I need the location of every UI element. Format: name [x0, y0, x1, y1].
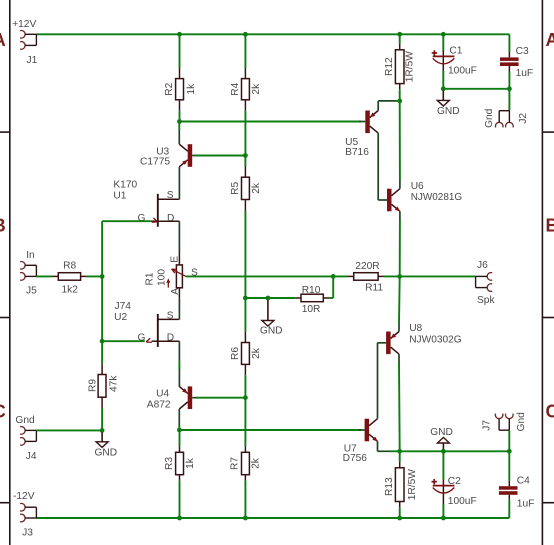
value 1k of R3 [185, 457, 196, 469]
svg-text:J2: J2 [518, 113, 529, 124]
svg-text:1uF: 1uF [516, 68, 534, 79]
transistor U2 [152, 307, 180, 354]
svg-text:Gnd: Gnd [15, 415, 35, 426]
svg-text:U4: U4 [156, 388, 169, 399]
svg-text:100: 100 [157, 269, 168, 286]
label U5 [345, 137, 358, 148]
label GND at J4 [95, 448, 118, 459]
node output junction [397, 274, 402, 279]
label GND below C1 [437, 106, 460, 117]
svg-text:2k: 2k [251, 457, 262, 469]
svg-text:Spk: Spk [477, 295, 495, 306]
value 1k2 of R8 [62, 285, 79, 296]
resistor R7 [242, 446, 250, 480]
frame right border line [541, 0, 543, 545]
wire C2 node to C4 [443, 450, 509, 452]
wire +12V rail [36, 33, 509, 35]
svg-text:D756: D756 [343, 453, 368, 464]
label R12 [384, 57, 395, 76]
svg-text:GND: GND [95, 448, 118, 459]
emitter arrow U8 [391, 333, 397, 338]
wire R4 to U3 base node [244, 111, 246, 156]
pin label D of U2 [167, 332, 174, 343]
node U4 base/R6/R7 junction [243, 395, 248, 400]
wire U4 collector to U7 base [179, 429, 361, 431]
pin label S of U2 [167, 310, 174, 321]
value 2k of R7 [251, 457, 262, 469]
svg-text:+12V: +12V [12, 19, 36, 30]
transistor U6 [387, 189, 400, 212]
svg-text:47k: 47k [108, 375, 119, 392]
resistor R11 [348, 273, 384, 281]
wire U4 base to R6/R7 node [196, 397, 245, 399]
wire R5 to GND node [244, 211, 246, 299]
label GND above C2 [430, 427, 453, 438]
wire U2 gate to input node [102, 340, 145, 342]
wire U8 base jog [377, 342, 386, 344]
svg-text:B: B [0, 215, 6, 235]
svg-text:R10: R10 [302, 285, 321, 296]
svg-text:C: C [546, 402, 554, 422]
svg-text:U6: U6 [411, 181, 424, 192]
svg-text:E: E [169, 256, 180, 263]
frame row tick right A/B [542, 131, 554, 133]
value 100 of R1 [157, 269, 168, 286]
frame row letter A left [0, 30, 6, 50]
node J4/R9 ground junction [100, 428, 105, 433]
value B716 of U5 [345, 147, 369, 158]
wire U2 drain to U4 emitter [178, 354, 180, 387]
label R6 [230, 347, 241, 360]
wiper arrow R1 [172, 269, 186, 276]
value 2k of R4 [251, 83, 262, 95]
connector J3 [20, 503, 36, 521]
svg-text:J3: J3 [22, 527, 33, 538]
svg-text:Gnd: Gnd [516, 412, 527, 432]
resistor R9 [98, 364, 106, 408]
value 2k of R5 [251, 182, 262, 194]
wire R1 wiper to output line [186, 275, 348, 277]
resistor R2 [176, 68, 184, 111]
node C4/J7 junction [507, 449, 512, 454]
wire R2 to node X [179, 111, 181, 122]
svg-text:S: S [167, 310, 174, 321]
plus sign C1 [432, 50, 437, 55]
label J3 [22, 527, 33, 538]
resistor R6 [242, 332, 250, 375]
value NJW0281G of U6 [411, 192, 463, 203]
node -12V/R13 junction [397, 516, 402, 521]
wire R1 to U2 source [178, 299, 180, 307]
wire U3 emitter to U1 source [178, 167, 180, 186]
net label Spk [477, 295, 495, 306]
wire U1 gate to input node [102, 221, 151, 276]
svg-text:GND: GND [430, 427, 453, 438]
wire R8 to input node [86, 275, 102, 277]
label J5 [26, 286, 37, 297]
value 10R of R10 [302, 304, 321, 315]
wire R7 to -12V rail [244, 481, 246, 518]
node R10/output junction [331, 274, 336, 279]
wire U7 emitter to R13 node [378, 441, 400, 451]
svg-text:U8: U8 [409, 323, 422, 334]
wire GND node to R10 [268, 297, 295, 299]
resistor R13 [395, 462, 404, 507]
frame row tick left C/D [0, 502, 10, 504]
svg-text:U2: U2 [114, 312, 127, 323]
node -12V/R7 junction [243, 516, 248, 521]
resistor R8 [53, 273, 87, 281]
svg-text:Gnd: Gnd [484, 108, 495, 128]
value 2k of R6 [251, 347, 262, 359]
svg-text:R6: R6 [230, 347, 241, 360]
base stub U5 [359, 121, 365, 123]
svg-text:U1: U1 [113, 190, 126, 201]
svg-text:2k: 2k [251, 347, 262, 359]
capacitor C2 [433, 451, 455, 504]
svg-text:R11: R11 [365, 282, 383, 293]
capacitor C3 [500, 52, 519, 72]
svg-text:2k: 2k [251, 182, 262, 194]
svg-text:R12: R12 [384, 57, 395, 76]
svg-text:C: C [0, 402, 6, 422]
wire U7 base [359, 429, 365, 431]
value 100uF of C2 [448, 496, 477, 507]
svg-text:R8: R8 [63, 260, 76, 271]
resistor R4 [242, 68, 250, 111]
emitter arrow U5 [370, 112, 376, 117]
svg-text:D: D [167, 332, 174, 343]
value 1R/5W of R13 [407, 469, 418, 501]
svg-text:C1775: C1775 [140, 156, 170, 167]
svg-text:GND: GND [260, 325, 283, 336]
wire input node down to U2 gate [101, 276, 103, 341]
connector J6 [476, 273, 493, 292]
wire R9 to ground node [101, 408, 103, 430]
label R9 [87, 379, 98, 392]
svg-text:1R/5W: 1R/5W [405, 51, 416, 83]
wire +12V rail to C3 [508, 34, 510, 52]
label R2 [164, 82, 175, 95]
wire J5 to R8 [36, 275, 52, 277]
wire +12V to R2 [179, 34, 181, 68]
wire U5 emitter to R12 node [378, 101, 400, 111]
net label -12V [13, 491, 35, 502]
pin label D of U1 [167, 213, 174, 224]
svg-text:1k: 1k [186, 83, 197, 95]
svg-text:A872: A872 [147, 400, 171, 411]
label R1 [145, 272, 156, 285]
value A872 of U4 [147, 400, 171, 411]
svg-text:C3: C3 [516, 46, 529, 57]
trimmer R1 [176, 253, 182, 299]
label U6 [411, 181, 424, 192]
gate arrow U2 [146, 338, 152, 342]
svg-text:NJW0302G: NJW0302G [409, 335, 462, 346]
label R7 [229, 457, 240, 470]
svg-text:C1: C1 [449, 46, 462, 57]
gate arrow U1 [152, 218, 158, 222]
svg-text:1k2: 1k2 [62, 285, 79, 296]
wire output node to J6 [400, 275, 476, 277]
node input/R8 junction [100, 274, 105, 279]
svg-text:J74: J74 [115, 301, 132, 312]
label J4 [26, 451, 37, 462]
svg-text:C4: C4 [517, 476, 530, 487]
label R5 [230, 182, 241, 195]
label U3 [156, 147, 169, 158]
node U4 collector junction [177, 428, 182, 433]
connector J7 [495, 414, 513, 431]
wire U6 collector to R12 node [399, 101, 401, 189]
svg-text:100uF: 100uF [448, 496, 477, 507]
svg-text:220R: 220R [355, 261, 379, 272]
wire C1 to gnd line [442, 71, 444, 89]
svg-text:J7: J7 [482, 420, 493, 431]
label C3 [516, 46, 529, 57]
value 1k of R2 [186, 83, 197, 95]
capacitor C1 [433, 51, 455, 71]
frame row letter C right [546, 402, 554, 422]
wire U5 collector to U6 base [378, 133, 383, 200]
wire R12 to U5 emitter node [399, 89, 401, 101]
pin label S of U1 [167, 190, 174, 201]
node R13/U7/U8 junction [397, 449, 402, 454]
svg-text:S: S [167, 190, 174, 201]
connector J1 [20, 31, 36, 50]
label R8 [63, 260, 76, 271]
svg-text:B: B [546, 215, 554, 235]
wire R10 to output line [329, 276, 333, 298]
pin label G of U1 [138, 213, 146, 224]
label U1 [113, 190, 126, 201]
node X junction R2/U3 collector [177, 119, 182, 124]
wire +12V to C1 [442, 34, 444, 51]
svg-text:K170: K170 [113, 180, 137, 191]
emitter arrow U7 [372, 437, 378, 442]
node +12V/R12 junction [397, 32, 402, 37]
svg-text:10R: 10R [302, 304, 321, 315]
value 220R of R11 [355, 261, 379, 272]
node C3/J2 junction [507, 86, 512, 91]
capacitor C4 [499, 481, 518, 500]
wire U7 collector to U8 base [377, 343, 379, 419]
wire R13 node down [399, 451, 401, 462]
frame row letter C left [0, 402, 6, 422]
transistor U7 [365, 419, 378, 442]
svg-text:1k: 1k [185, 457, 196, 469]
wire +12V to R12 [399, 34, 401, 44]
frame row letter B left [0, 215, 6, 235]
wire U6 emitter to output node [399, 211, 401, 276]
wire U3 base to R4/R5 node [196, 155, 245, 157]
svg-text:A: A [546, 30, 554, 50]
node -12V/R3 junction [177, 516, 182, 521]
node +12V/C1 junction [441, 32, 446, 37]
node GND stub junction [266, 296, 271, 301]
transistor U3 [179, 144, 192, 167]
svg-text:R5: R5 [230, 182, 241, 195]
wire C1 gnd line to C3 [443, 88, 509, 90]
resistor R3 [176, 446, 184, 480]
svg-text:R1: R1 [145, 272, 156, 285]
svg-text:-12V: -12V [13, 491, 35, 502]
wire U8 emitter to output node [398, 276, 401, 331]
svg-text:R3: R3 [164, 457, 175, 470]
transistor U8 [386, 332, 399, 355]
ground symbol above C2 [437, 437, 449, 449]
wire C3 to gnd line [508, 72, 510, 89]
wire U3 collector to node X [178, 123, 180, 144]
label J2 [518, 113, 529, 124]
value 1uF of C4 [517, 498, 535, 509]
svg-text:C2: C2 [448, 476, 461, 487]
wire R13 node to C2 [400, 450, 444, 452]
base stub U4 [192, 397, 198, 399]
label R4 [230, 82, 241, 95]
frame row tick right C/D [542, 502, 554, 504]
node +12V/R2 junction [177, 32, 182, 37]
wire GND node to R6 [244, 298, 246, 332]
svg-text:1uF: 1uF [517, 498, 535, 509]
svg-text:G: G [138, 213, 146, 224]
svg-text:D: D [167, 213, 174, 224]
ground symbol below C1 [437, 91, 449, 106]
svg-text:R4: R4 [230, 82, 241, 95]
value 1R/5W of R12 [405, 51, 416, 83]
svg-text:NJW0281G: NJW0281G [411, 192, 463, 203]
node C2/GND junction [441, 449, 446, 454]
wire R6 to U4 base node [244, 375, 246, 398]
pin label E of R1 [169, 256, 180, 263]
node C1/GND junction [441, 86, 446, 91]
label R3 [164, 457, 175, 470]
resistor R12 [395, 44, 404, 89]
wire C4 node down [508, 451, 510, 480]
node input/U2 gate junction [100, 339, 105, 344]
svg-text:J5: J5 [26, 286, 37, 297]
frame row tick left B/C [0, 317, 10, 319]
svg-text:1R/5W: 1R/5W [407, 469, 418, 501]
base stub U6 [383, 199, 387, 201]
value D756 of U7 [343, 453, 368, 464]
label U2 [114, 312, 127, 323]
emitter arrow U4 [182, 388, 188, 393]
svg-text:R2: R2 [164, 82, 175, 95]
svg-text:R9: R9 [87, 379, 98, 392]
svg-text:100uF: 100uF [448, 66, 477, 77]
node +12V/R4 junction [243, 32, 248, 37]
node U3 base/R4/R5 junction [243, 153, 248, 158]
frame row letter B right [546, 215, 554, 235]
svg-text:B716: B716 [345, 147, 369, 158]
frame row tick right B/C [542, 317, 554, 319]
plus sign C2 [432, 479, 437, 484]
pin label S of R1 [191, 267, 198, 278]
label J6 [477, 260, 488, 271]
svg-text:J6: J6 [477, 260, 488, 271]
svg-text:R13: R13 [384, 477, 395, 496]
connector J2 [495, 111, 513, 128]
wire R5 node to GND stub [245, 297, 268, 299]
value 1uF of C3 [516, 68, 534, 79]
wire input node down to R9 [101, 341, 103, 364]
wire C2 to -12V rail [442, 504, 444, 518]
transistor U5 [365, 111, 378, 134]
svg-text:J1: J1 [27, 55, 38, 66]
wire U4 base node to R7 [244, 398, 246, 447]
svg-text:In: In [26, 250, 35, 261]
label R11 [365, 282, 383, 293]
wire R13 to -12V rail [399, 507, 401, 518]
frame left border line [9, 0, 11, 545]
wire J7 to C2/C4 line [508, 430, 510, 451]
net label Gnd at J2 [484, 108, 495, 128]
net label Gnd at J4 [15, 415, 35, 426]
label J74 [115, 301, 132, 312]
wire U1 drain to R1 [178, 234, 180, 253]
value C1775 of U3 [140, 156, 170, 167]
adjust arrow R1 [166, 278, 170, 287]
svg-text:A: A [0, 30, 6, 50]
label C1 [449, 46, 462, 57]
wire U8 collector down [398, 354, 401, 451]
wire U4 collector down [178, 409, 180, 430]
net label Gnd at J7 [516, 412, 527, 432]
resistor R10 [295, 294, 329, 302]
wire -12V rail [36, 517, 509, 519]
resistor R5 [242, 167, 250, 211]
svg-text:GND: GND [437, 106, 460, 117]
label R10 [302, 285, 321, 296]
label R13 [384, 477, 395, 496]
wire U4 collector to R3 [179, 430, 181, 446]
wire R3 to -12V rail [179, 481, 181, 518]
net label +12V [12, 19, 36, 30]
node R12/U5/U6 junction [397, 99, 402, 104]
emitter arrow U6 [395, 207, 401, 212]
label C2 [448, 476, 461, 487]
frame row tick left A/B [0, 131, 10, 133]
label K170 [113, 180, 137, 191]
ground symbol at J4 [96, 432, 108, 447]
value 100uF of C1 [448, 66, 477, 77]
svg-text:R7: R7 [229, 457, 240, 470]
connector J5 [20, 262, 36, 281]
base stub U3 [192, 155, 198, 157]
wire node X to U5 base [180, 121, 362, 123]
label J1 [27, 55, 38, 66]
wire +12V to R4 [244, 34, 246, 68]
label GND mid [260, 325, 283, 336]
pin label G of U2 [138, 332, 146, 343]
wire gnd line to J2 [508, 89, 510, 111]
connector J4 [20, 427, 36, 446]
svg-text:2k: 2k [251, 83, 262, 95]
wire U3 base node to R5 [244, 156, 246, 167]
value NJW0302G of U8 [409, 335, 462, 346]
label C4 [517, 476, 530, 487]
ground symbol mid [262, 300, 274, 326]
wire R11 to output node [384, 275, 400, 277]
pin label A of R1 [170, 288, 181, 295]
wire -12V rail to C4 [508, 500, 510, 518]
frame row letter A right [546, 30, 554, 50]
wire J4 to ground node [36, 429, 102, 431]
transistor U1 [151, 186, 180, 234]
net label In [26, 250, 35, 261]
svg-text:A: A [170, 288, 181, 295]
